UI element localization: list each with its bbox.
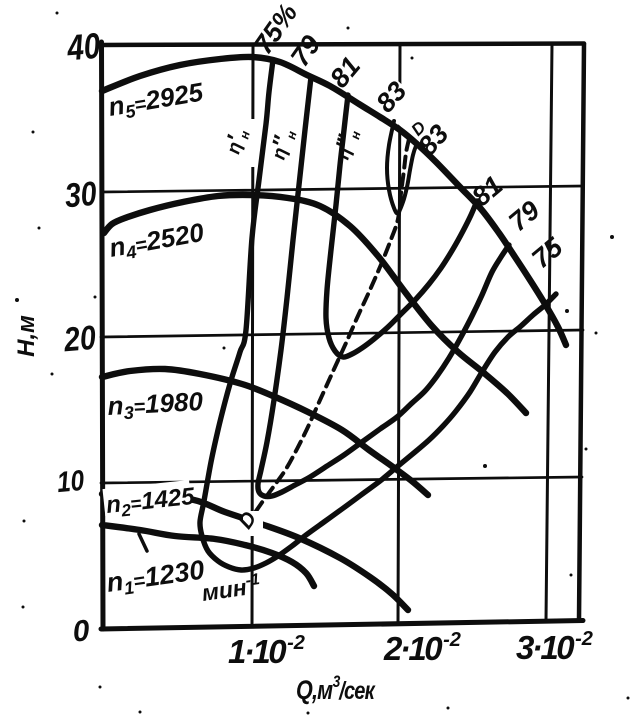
efficiency contour 81 — [326, 95, 477, 357]
grid line Q=2e-2 — [398, 45, 400, 623]
svg-text:Н,м: Н,м — [13, 315, 40, 357]
svg-text:/сек: /сек — [338, 677, 376, 705]
svg-text:40: 40 — [65, 25, 102, 68]
efficiency contour 75 percent — [200, 60, 556, 570]
white mask for eta1 label over grid — [231, 119, 255, 167]
dashed best-efficiency line D — [254, 139, 409, 514]
pump curve n2=1425 — [102, 494, 408, 610]
pump curve n1=1230 — [102, 525, 314, 586]
frame right border — [579, 44, 584, 620]
svg-text:30: 30 — [63, 174, 98, 215]
x axis — [101, 621, 583, 630]
efficiency contour 79 — [258, 77, 509, 497]
grid line H=10 — [101, 477, 582, 483]
leader tick n2 label — [139, 534, 147, 551]
grid line Q=1e-2 — [252, 45, 253, 627]
y axis — [102, 42, 104, 629]
pump curve n5=2925 — [102, 57, 566, 345]
efficiency contour 83 loop — [387, 121, 418, 213]
grid line H=20 — [101, 330, 583, 337]
pump curve n3=1980 — [102, 369, 428, 495]
white mask for D bottom label — [243, 511, 263, 536]
svg-text:10: 10 — [56, 464, 86, 499]
grid line Q=3e-2 — [546, 44, 552, 621]
white mask n2 label — [102, 480, 191, 516]
white mask for 83 label over grid — [373, 78, 426, 130]
grid line H=30 — [101, 186, 583, 192]
frame top border — [101, 44, 584, 46]
pump curve n4=2520 — [104, 195, 526, 413]
svg-text:20: 20 — [61, 318, 97, 359]
svg-text:Q,м: Q,м — [296, 676, 333, 706]
axis title Q,m3/sek — [296, 673, 376, 706]
svg-text:0: 0 — [71, 614, 91, 648]
